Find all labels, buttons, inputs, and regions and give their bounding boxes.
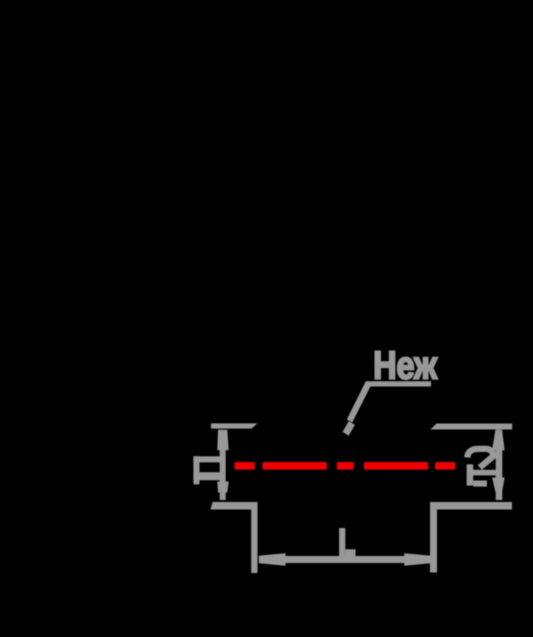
dimension line T2 vertical	[496, 431, 503, 500]
dimension T2 bottom arrow	[492, 478, 505, 493]
top-left flange line	[211, 423, 258, 428]
leader diagonal line	[347, 381, 372, 422]
dimension T2 top arrow	[492, 430, 505, 450]
label T2: bottom foot	[473, 481, 487, 487]
dimension line T1 vertical	[220, 431, 226, 500]
red dashed weld line segment 1	[235, 462, 255, 470]
bottom dimension left arrow	[259, 553, 286, 565]
red dashed weld line segment 5	[435, 462, 455, 470]
bottom dimension right arrow	[404, 553, 430, 565]
leader shelf line under text	[366, 381, 431, 386]
label T2: digit 2 body	[467, 449, 493, 468]
red dashed weld line segment 4	[364, 462, 428, 470]
red dashed weld line segment 3	[337, 462, 354, 470]
right extension leg	[430, 502, 437, 573]
dimension T1 bottom arrow	[217, 482, 228, 493]
label T1 rotated: T crossbar	[193, 456, 199, 484]
label T1 rotated: T stem	[193, 472, 225, 480]
top-right flange line	[430, 424, 512, 430]
left extension leg	[251, 502, 257, 573]
red dashed weld line segment 2	[262, 462, 326, 470]
svg-text:Неж: Неж	[373, 344, 438, 387]
label T2: horizontal stem bar	[467, 470, 501, 476]
dimension T1 top arrow	[217, 430, 228, 450]
label T1 rotated: digit 1 bar	[193, 456, 221, 462]
bottom-right flange line	[430, 502, 512, 510]
bottom dimension line	[259, 556, 431, 563]
label T2: left vertical bar	[467, 464, 474, 485]
bottom-left flange line	[211, 502, 258, 510]
label L: foot	[345, 549, 355, 556]
leader arrowhead	[343, 421, 355, 436]
label L: vertical bar	[339, 528, 345, 557]
